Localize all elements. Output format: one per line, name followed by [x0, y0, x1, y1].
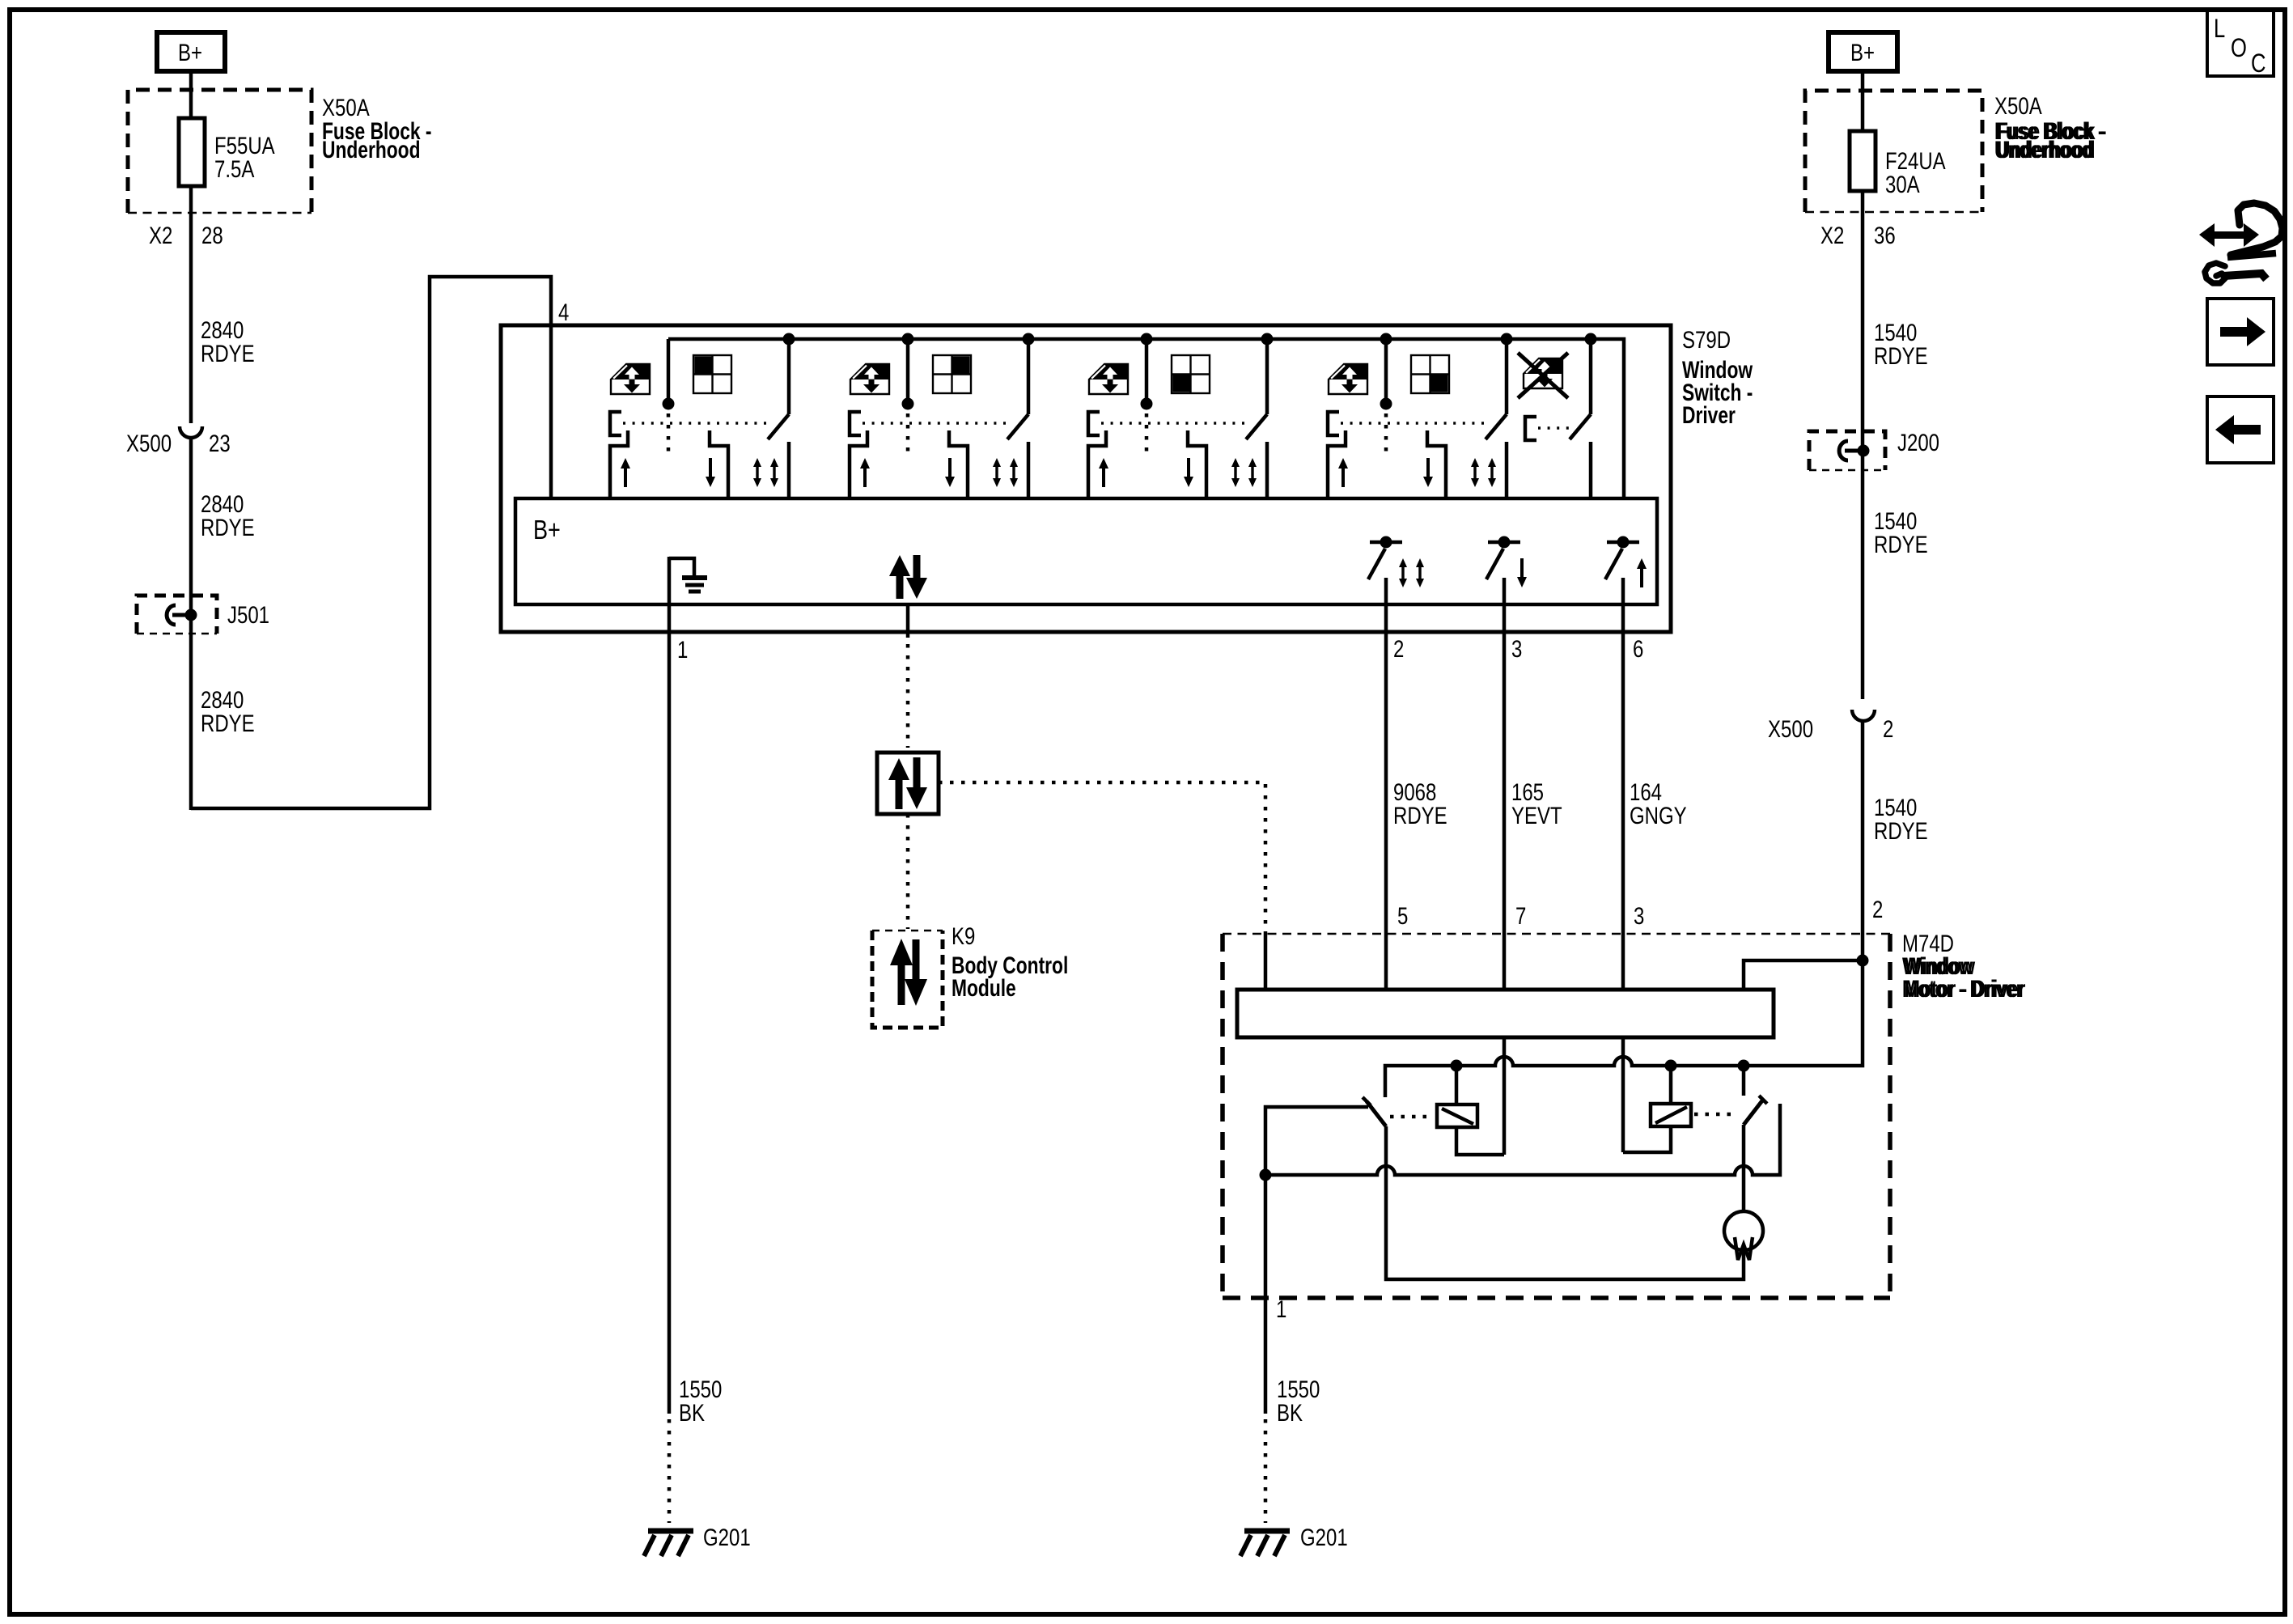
switch output contact pin 6 — [1605, 536, 1639, 580]
svg-text:RDYE: RDYE — [1393, 801, 1447, 829]
wire pin3 to motor (165 YEVT) — [1503, 578, 1507, 990]
body control module K9 dashed box — [872, 931, 943, 1028]
svg-text:1: 1 — [677, 635, 688, 663]
switch output contact pin 2 — [1368, 536, 1402, 580]
svg-text:Module: Module — [952, 974, 1016, 1002]
svg-text:K9: K9 — [952, 922, 975, 949]
svg-text:B+: B+ — [1850, 38, 1875, 66]
svg-text:4: 4 — [558, 298, 569, 325]
splice J501 — [137, 596, 269, 634]
relay 1 common to motor bottom loop — [1386, 1126, 1744, 1279]
wire fuse down to X500 (right) — [1861, 191, 1865, 699]
wire B+ to fuse block (left) — [189, 71, 193, 118]
switch control output wire (dotted to BCM) — [906, 605, 910, 638]
harness routing icon — [2199, 203, 2282, 283]
relay 2 dotted actuator link — [1694, 1113, 1738, 1117]
svg-text:S79D: S79D — [1682, 325, 1731, 353]
svg-text:RDYE: RDYE — [1874, 816, 1928, 844]
switch output contact pin 3 — [1486, 536, 1520, 580]
control input wire inside module — [1264, 932, 1268, 990]
relay 2 fixed contact stub — [1742, 1066, 1746, 1096]
motor M — [1724, 1211, 1763, 1250]
svg-text:3: 3 — [1511, 634, 1522, 662]
wire pin6 to motor (164 GNGY) — [1621, 578, 1625, 990]
B+ supply bar inside switch — [515, 498, 1657, 604]
relay 1 contact blade — [1367, 1101, 1386, 1126]
svg-text:RDYE: RDYE — [201, 709, 255, 736]
dotted ground run (left) — [668, 1419, 672, 1523]
window switch cell LR — [1088, 333, 1274, 499]
svg-text:7: 7 — [1515, 901, 1526, 929]
ground G201 (right) — [1240, 1531, 1290, 1556]
LOC box — [2207, 10, 2274, 78]
wire fuse to X2-28 and down to X500 — [189, 186, 193, 423]
svg-text:3: 3 — [1634, 901, 1644, 929]
svg-text:1: 1 — [1276, 1295, 1286, 1322]
splice J200 — [1809, 428, 1939, 470]
svg-text:X2: X2 — [1820, 221, 1844, 248]
svg-text:O: O — [2231, 34, 2247, 62]
junction ground node — [1260, 1169, 1272, 1181]
window lockout switch cell — [1518, 333, 1597, 499]
connector X500 pin 2 — [1852, 710, 1875, 721]
svg-text:30A: 30A — [1885, 170, 1920, 197]
svg-text:X500: X500 — [126, 429, 172, 456]
junction coil 1 top — [1451, 1060, 1463, 1072]
svg-text:2: 2 — [1883, 714, 1893, 742]
relay 1 pin7 coil wire — [1503, 1037, 1507, 1155]
expression window motor symbol box — [877, 753, 939, 814]
svg-text:5: 5 — [1397, 901, 1408, 929]
relay 1 dotted actuator link — [1390, 1115, 1434, 1119]
relay coil K1 — [1437, 1066, 1504, 1155]
svg-text:J200: J200 — [1897, 428, 1939, 456]
svg-text:J501: J501 — [227, 600, 269, 628]
wire loop to switch pin 4 — [191, 277, 551, 808]
ground G201 (left) — [644, 1531, 693, 1556]
svg-text:B+: B+ — [533, 516, 561, 545]
svg-text:7.5A: 7.5A — [214, 155, 255, 182]
wire pin2 to motor (9068 RDYE) — [1384, 578, 1388, 990]
wire to motor terminal bar — [1744, 960, 1863, 990]
fuse block underhood dashed box X50A (left) — [128, 90, 312, 213]
fuse F24UA 30A — [1850, 131, 1876, 191]
svg-text:6: 6 — [1633, 634, 1643, 662]
svg-text:2: 2 — [1872, 895, 1883, 922]
window switch cell RF — [850, 333, 1035, 499]
svg-text:28: 28 — [201, 221, 223, 248]
battery feed B+ box (left) — [157, 32, 225, 71]
wire X500 to J501 — [189, 437, 193, 810]
ground feed wire to relay 2 contact — [1265, 1104, 1780, 1175]
switch ground output wire pin 1 — [668, 557, 672, 1414]
motor module terminal bar — [1237, 990, 1774, 1037]
svg-text:RDYE: RDYE — [201, 513, 255, 541]
relay 2 common to motor top — [1742, 1125, 1746, 1211]
connector X500 pin 23 — [180, 426, 202, 438]
ground feed wire to relay 1 — [1265, 1107, 1368, 1298]
dotted control to K9 — [906, 814, 910, 929]
internal supply bus — [668, 339, 1624, 498]
junction coil 2 top — [1665, 1060, 1677, 1072]
window switch cell RR — [1328, 333, 1513, 499]
svg-text:RDYE: RDYE — [201, 339, 255, 367]
svg-text:BK: BK — [1277, 1398, 1303, 1426]
svg-text:X50A: X50A — [1994, 91, 2042, 119]
fuse F55UA 7.5A — [179, 118, 205, 186]
back arrow box — [2207, 396, 2274, 463]
relay 2 pin3 coil wire — [1621, 1037, 1625, 1152]
window switch cell LF (up/down/auto) — [610, 333, 795, 499]
ground symbol inside switch — [669, 558, 707, 592]
relay 2 contact blade — [1744, 1100, 1763, 1125]
forward arrow box — [2207, 299, 2274, 365]
up-down arrows symbol inside bar — [889, 555, 927, 599]
relay coil K2 — [1623, 1066, 1691, 1152]
svg-text:Underhood: Underhood — [322, 136, 420, 163]
svg-text:L: L — [2214, 15, 2225, 43]
svg-text:X500: X500 — [1768, 714, 1813, 742]
svg-text:RDYE: RDYE — [1874, 530, 1928, 558]
svg-text:Driver: Driver — [1682, 401, 1736, 429]
svg-text:36: 36 — [1874, 221, 1896, 248]
svg-text:BK: BK — [679, 1398, 705, 1426]
svg-text:YEVT: YEVT — [1511, 801, 1562, 829]
wire X500 to motor module — [1861, 720, 1865, 963]
svg-text:X2: X2 — [149, 221, 172, 248]
svg-text:Underhood: Underhood — [1997, 136, 2095, 163]
svg-text:G201: G201 — [1300, 1523, 1348, 1550]
module pin 1 ground wire — [1264, 1298, 1268, 1414]
relay supply bus — [1385, 960, 1863, 1097]
svg-text:G201: G201 — [703, 1523, 751, 1550]
svg-text:23: 23 — [209, 429, 231, 456]
svg-text:GNGY: GNGY — [1630, 801, 1687, 829]
window switch driver S79D outer box — [501, 325, 1671, 632]
fuse block underhood dashed box X50A (right) — [1805, 91, 1982, 212]
dotted control to window motor module — [939, 782, 1265, 932]
svg-text:Motor - Driver: Motor - Driver — [1905, 975, 2025, 1003]
svg-text:C: C — [2251, 49, 2265, 78]
dotted ground run (right) — [1264, 1419, 1268, 1523]
junction at module entry — [1857, 955, 1869, 967]
battery feed B+ box (right) — [1829, 32, 1897, 71]
svg-text:B+: B+ — [178, 38, 202, 66]
junction motor contact — [1738, 1060, 1750, 1072]
wire B+ to fuse (right) — [1861, 71, 1865, 131]
svg-text:2: 2 — [1393, 634, 1404, 662]
svg-text:RDYE: RDYE — [1874, 341, 1928, 369]
window motor driver M74D dashed box — [1223, 934, 1890, 1298]
